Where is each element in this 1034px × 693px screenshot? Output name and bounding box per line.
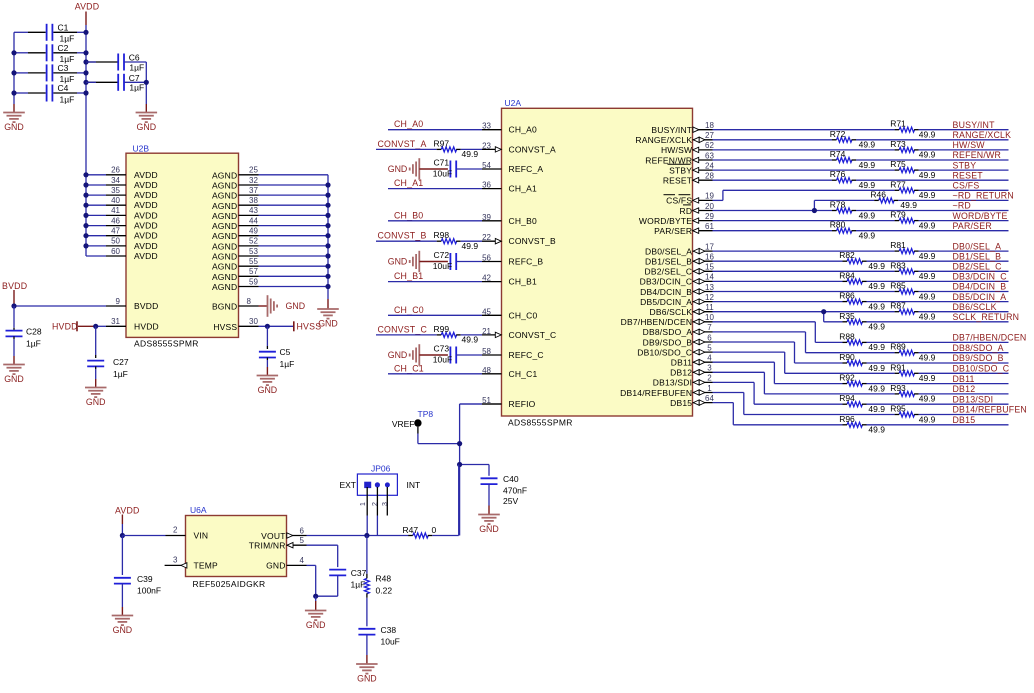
svg-text:13: 13	[705, 283, 714, 292]
ground GND (C40)	[478, 506, 500, 535]
svg-text:49.9: 49.9	[919, 353, 936, 363]
svg-text:DB5/DCIN_A: DB5/DCIN_A	[953, 292, 1007, 302]
svg-text:C37: C37	[351, 568, 367, 578]
pin 3 DB12 (U2A)	[670, 364, 712, 378]
resistor R86 49.9	[839, 291, 885, 312]
junction dots AVDD rail (cap bank)	[83, 30, 88, 96]
pin 19 CS/FS (U2A)	[666, 192, 714, 206]
svg-text:CH_A1: CH_A1	[394, 178, 423, 188]
svg-text:36: 36	[482, 181, 491, 190]
resistor R91 49.9	[890, 362, 935, 383]
pin 6 VOUT (U6A)	[261, 527, 306, 541]
resistor R72 49.9	[830, 129, 876, 150]
svg-text:49.9: 49.9	[868, 281, 885, 291]
node PAR/SER net label	[953, 221, 992, 231]
svg-text:43: 43	[249, 206, 258, 215]
svg-text:AGND: AGND	[212, 241, 237, 251]
resistor R96 49.9	[839, 414, 885, 435]
svg-text:AVDD: AVDD	[115, 506, 140, 516]
pin 55 AGND (U2B)	[212, 257, 328, 272]
resistor R35 49.9	[839, 311, 885, 332]
resistor R48 0.22	[364, 536, 392, 627]
pin 20 RD (U2A)	[680, 202, 715, 216]
pin 38 AGND (U2B)	[212, 196, 328, 211]
svg-text:DB9/SDO_B: DB9/SDO_B	[953, 353, 1004, 363]
svg-text:U2A: U2A	[505, 98, 522, 108]
svg-text:49.9: 49.9	[868, 363, 885, 373]
svg-text:DB5/DCIN_A: DB5/DCIN_A	[640, 297, 692, 307]
svg-text:WORD/BYTE: WORD/BYTE	[953, 211, 1008, 221]
svg-text:HVSS: HVSS	[297, 322, 322, 332]
svg-text:HVSS: HVSS	[213, 322, 237, 332]
node CH_B0 net label + wire	[388, 210, 482, 221]
svg-text:49.9: 49.9	[868, 261, 885, 271]
capacitor C5 1uF	[259, 326, 294, 369]
svg-text:0.22: 0.22	[376, 585, 393, 595]
svg-text:PAR/SER: PAR/SER	[654, 226, 692, 236]
svg-text:42: 42	[482, 274, 491, 283]
wire STBY row	[713, 169, 1009, 171]
svg-text:BUSY/INT: BUSY/INT	[953, 120, 996, 130]
capacitor C6 1uF	[86, 53, 146, 73]
svg-text:27: 27	[705, 131, 714, 140]
ground GND (left of C72)	[388, 251, 420, 272]
svg-text:45: 45	[482, 307, 491, 316]
pin 48 CH_C1 (U2A)	[482, 366, 537, 379]
resistor R74 49.9	[830, 149, 876, 170]
pin 15 DB2/SEL_C (U2A)	[645, 263, 715, 277]
overline RD pin name	[683, 204, 691, 206]
svg-text:30: 30	[249, 317, 258, 326]
pin 2 (JP06)	[372, 487, 379, 536]
resistor R98 49.9	[434, 230, 483, 251]
svg-text:DB15: DB15	[670, 398, 692, 408]
pin 10 DB7/HBEN/DCEN (U2A)	[621, 313, 715, 327]
svg-text:AVDD: AVDD	[134, 210, 158, 220]
pin 26 AVDD (U2B)	[86, 166, 158, 180]
pin 8 BGND (U2B)	[212, 297, 259, 312]
svg-text:CH_C1: CH_C1	[394, 363, 424, 373]
svg-text:5: 5	[300, 536, 305, 545]
svg-text:R93: R93	[890, 383, 906, 393]
svg-text:DB2/SEL_C: DB2/SEL_C	[953, 262, 1003, 272]
capacitor C27 1uF	[87, 326, 129, 379]
svg-text:R86: R86	[839, 291, 855, 301]
svg-text:14: 14	[705, 273, 714, 282]
svg-text:DB1/SEL_B: DB1/SEL_B	[645, 257, 692, 267]
node DB13/SDI net label	[953, 394, 994, 404]
resistor R71 49.9	[890, 119, 935, 140]
svg-text:6: 6	[300, 527, 305, 536]
svg-text:1µF: 1µF	[60, 94, 75, 104]
svg-text:AVDD: AVDD	[134, 241, 158, 251]
svg-text:REFEN/WR: REFEN/WR	[953, 150, 1002, 160]
wire BUSY/INT row	[713, 129, 1009, 131]
svg-text:HW/SW: HW/SW	[661, 145, 692, 155]
svg-text:DB0/SEL_A: DB0/SEL_A	[953, 241, 1002, 251]
node DB8/SDO_A net label	[953, 343, 1004, 353]
wire DB1/SEL_B row	[713, 260, 1009, 262]
pin 41 AVDD (U2B)	[86, 206, 158, 220]
svg-text:U6A: U6A	[190, 505, 207, 515]
svg-text:11: 11	[705, 303, 714, 312]
svg-text:10: 10	[705, 313, 714, 322]
svg-text:HVDD: HVDD	[134, 321, 159, 331]
svg-text:28: 28	[705, 172, 714, 181]
svg-text:RESET: RESET	[663, 176, 692, 186]
svg-text:10uF: 10uF	[433, 261, 452, 271]
junction dots AGND bus	[325, 182, 330, 289]
pin 1 DB14/REFBUFEN (U2A)	[620, 384, 712, 398]
capacitor C73 10uF	[419, 344, 482, 365]
resistor R73 49.9	[890, 139, 935, 160]
svg-text:C6: C6	[129, 53, 140, 63]
pin 39 CH_B0 (U2A)	[482, 213, 537, 226]
svg-text:49.9: 49.9	[462, 149, 479, 159]
resistor R88 49.9	[839, 331, 885, 352]
ground GND (C39)	[112, 607, 134, 635]
svg-text:R72: R72	[830, 129, 846, 139]
pin 37 AGND (U2B)	[212, 186, 328, 201]
svg-text:49.9: 49.9	[462, 335, 479, 345]
pin 23 CONVST_A (U2A)	[482, 141, 556, 154]
node SCLK_RETURN net label	[953, 312, 1020, 322]
node DB11 net label	[953, 374, 975, 384]
svg-text:2: 2	[372, 502, 379, 506]
svg-text:R83: R83	[890, 260, 906, 270]
svg-text:R99: R99	[434, 324, 450, 334]
svg-text:R77: R77	[890, 179, 906, 189]
capacitor C28 1uF	[6, 306, 42, 356]
svg-text:49.9: 49.9	[919, 373, 936, 383]
svg-text:44: 44	[249, 216, 258, 225]
node RANGE/XCLK net label	[953, 130, 1012, 140]
svg-text:TEMP: TEMP	[194, 560, 219, 570]
svg-text:AGND: AGND	[212, 231, 237, 241]
pin 2 DB13/SDI (U2A)	[653, 374, 713, 388]
svg-text:RANGE/XCLK: RANGE/XCLK	[635, 135, 692, 145]
junction dot on ~RD row	[812, 208, 817, 213]
svg-text:R96: R96	[839, 414, 855, 424]
svg-text:21: 21	[482, 327, 491, 336]
pin 32 AGND (U2B)	[212, 176, 328, 191]
pin 6 DB9/SDO_B (U2A)	[643, 333, 713, 347]
wire REFEN/WR row	[713, 159, 1009, 161]
resistor R46 49.9	[870, 189, 917, 210]
pin 42 CH_B1 (U2A)	[482, 274, 537, 287]
svg-text:DB12: DB12	[670, 368, 692, 378]
resistor R95 49.9	[890, 404, 935, 425]
wire AVDD vertical rail	[85, 25, 87, 256]
node DB2/SEL_C net label	[953, 262, 1003, 272]
pin 63 REFEN/WR (U2A)	[645, 151, 714, 165]
connector JP06	[339, 464, 420, 496]
ground GND (U6A pin4)	[305, 596, 327, 630]
svg-text:49.9: 49.9	[868, 342, 885, 352]
svg-text:DB10/SDO_C: DB10/SDO_C	[637, 347, 692, 357]
overline STBY pin name	[668, 163, 691, 165]
svg-text:C27: C27	[113, 357, 129, 367]
node DB15 net label	[953, 415, 976, 425]
svg-text:R90: R90	[839, 352, 855, 362]
pin 3 TEMP (U6A)	[165, 556, 218, 571]
wire RD_RETURN row	[814, 199, 1008, 201]
svg-text:26: 26	[111, 166, 120, 175]
svg-text:DB7/HBEN/DCEN: DB7/HBEN/DCEN	[953, 333, 1027, 343]
svg-text:R82: R82	[839, 250, 855, 260]
wire DB10/SDO_C row	[785, 372, 1009, 374]
pin 44 AGND (U2B)	[212, 216, 328, 231]
pin 17 DB0/SEL_A (U2A)	[645, 242, 714, 256]
svg-text:R71: R71	[890, 119, 906, 129]
svg-text:CS/FS: CS/FS	[953, 181, 980, 191]
svg-text:R47: R47	[403, 525, 419, 535]
svg-text:R76: R76	[830, 169, 846, 179]
svg-text:49.9: 49.9	[919, 394, 936, 404]
svg-text:DB10/SDO_C: DB10/SDO_C	[953, 364, 1010, 374]
svg-text:AGND: AGND	[212, 170, 237, 180]
resistor R99 49.9	[434, 324, 483, 345]
svg-text:REF5025AIDGKR: REF5025AIDGKR	[193, 579, 266, 589]
svg-text:ADS8555SPMR: ADS8555SPMR	[508, 418, 573, 428]
pin 12 DB5/DCIN_A (U2A)	[640, 293, 714, 307]
pin 11 DB6/SCLK (U2A)	[649, 303, 714, 317]
pin 30 HVSS (U2B)	[213, 317, 293, 332]
svg-text:GND: GND	[479, 524, 499, 534]
wire PAR/SER row	[713, 230, 1009, 232]
svg-text:GND: GND	[137, 122, 157, 132]
junction dots AVDD bus at U2B	[83, 172, 88, 248]
node DB3/DCIN_C net label	[953, 272, 1008, 282]
pin 61 PAR/SER (U2A)	[654, 222, 714, 236]
resistor R78 49.9	[830, 200, 876, 221]
svg-text:AVDD: AVDD	[75, 2, 100, 12]
pin 4 DB11 (U2A)	[671, 354, 713, 368]
svg-text:C72: C72	[434, 250, 450, 260]
node CH_C1 net label + wire	[388, 363, 482, 374]
svg-text:0: 0	[432, 525, 437, 535]
svg-text:2: 2	[173, 526, 178, 535]
node BUSY/INT net label	[953, 120, 996, 130]
wire RD row	[713, 210, 1009, 212]
svg-text:25: 25	[249, 166, 258, 175]
pin 29 WORD/BYTE (U2A)	[639, 212, 715, 226]
svg-text:46: 46	[111, 216, 120, 225]
svg-text:AVDD: AVDD	[134, 231, 158, 241]
svg-text:DB15: DB15	[953, 415, 976, 425]
node DB12 net label	[953, 384, 976, 394]
svg-text:CONVST_A: CONVST_A	[378, 139, 427, 149]
svg-text:DB11: DB11	[671, 358, 693, 368]
svg-text:GND: GND	[357, 674, 377, 684]
svg-text:49.9: 49.9	[868, 425, 885, 435]
svg-text:GND: GND	[388, 164, 408, 174]
pin 60 AVDD (U2B)	[86, 247, 158, 261]
wire pin 2 jog to DB13/SDI row	[713, 382, 755, 404]
svg-text:STBY: STBY	[953, 160, 977, 170]
svg-text:53: 53	[249, 247, 258, 256]
svg-text:R97: R97	[434, 138, 450, 148]
svg-text:17: 17	[705, 242, 714, 251]
svg-text:63: 63	[705, 151, 714, 160]
power port HVSS	[265, 321, 321, 331]
wire DB0/SEL_A row	[713, 250, 1009, 252]
wire WORD/BYTE row	[713, 220, 1009, 222]
node DB6/SCLK net label	[953, 302, 997, 312]
svg-text:4: 4	[707, 354, 712, 363]
svg-text:62: 62	[705, 141, 714, 150]
svg-text:REFC_A: REFC_A	[509, 164, 544, 174]
resistor R94 49.9	[839, 393, 885, 414]
svg-text:25V: 25V	[503, 496, 518, 506]
svg-text:DB4/DCIN_B: DB4/DCIN_B	[953, 282, 1007, 292]
svg-text:AGND: AGND	[212, 211, 237, 221]
svg-text:3: 3	[707, 364, 712, 373]
svg-text:CONVST_A: CONVST_A	[509, 144, 557, 154]
node DB1/SEL_B net label	[953, 251, 1002, 261]
resistor R83 49.9	[890, 260, 935, 281]
svg-text:C71: C71	[434, 158, 450, 168]
svg-text:35: 35	[111, 186, 120, 195]
svg-text:AGND: AGND	[212, 272, 237, 282]
svg-text:49.9: 49.9	[919, 271, 936, 281]
pin 31 HVDD (U2B)	[96, 317, 159, 331]
junction dots left rail	[11, 50, 16, 95]
svg-text:DB9/SDO_B: DB9/SDO_B	[643, 337, 693, 347]
pin 18 BUSY/INT (U2A)	[651, 121, 714, 135]
pin 40 AVDD (U2B)	[86, 196, 158, 210]
svg-text:100nF: 100nF	[137, 585, 161, 595]
node DB10/SDO_C net label	[953, 364, 1010, 374]
svg-text:29: 29	[705, 212, 714, 221]
svg-text:DB13/SDI: DB13/SDI	[653, 378, 692, 388]
pin 1 (JP06)	[360, 487, 367, 536]
svg-text:CONVST_B: CONVST_B	[378, 231, 427, 241]
svg-text:59: 59	[249, 277, 258, 286]
voltage reference U6A REF5025AIDGKR block body	[186, 505, 287, 589]
svg-text:R94: R94	[839, 393, 855, 403]
ground GND (left of C73)	[388, 344, 420, 366]
svg-text:R48: R48	[376, 574, 392, 584]
test point TP8 VREF	[392, 409, 462, 446]
ground GND (BGND pin)	[259, 295, 306, 317]
node DB14/REFBUFEN net label	[953, 405, 1027, 415]
capacitor C71 10uF	[419, 158, 482, 179]
svg-text:12: 12	[705, 293, 714, 302]
node DB7/HBEN/DCEN net label	[953, 333, 1027, 343]
svg-text:8: 8	[247, 297, 252, 306]
svg-text:49.9: 49.9	[919, 130, 936, 140]
pin 14 DB3/DCIN_C (U2A)	[640, 273, 715, 287]
svg-text:57: 57	[249, 267, 258, 276]
svg-text:R95: R95	[890, 404, 906, 414]
power port AVDD (U6A)	[115, 506, 140, 539]
svg-text:C1: C1	[58, 22, 69, 32]
ground GND (left of C71)	[388, 158, 420, 180]
svg-text:WORD/BYTE: WORD/BYTE	[639, 216, 692, 226]
svg-text:C5: C5	[280, 347, 291, 357]
resistor R77 49.9	[890, 179, 935, 200]
wire DB15 row	[733, 424, 1008, 426]
svg-text:34: 34	[111, 176, 120, 185]
wire SCLK_RETURN row	[824, 321, 1009, 323]
node WORD/BYTE net label	[953, 211, 1008, 221]
ground GND (C27)	[85, 379, 107, 407]
svg-text:AVDD: AVDD	[134, 251, 158, 261]
wire DB4/DCIN_B row	[713, 291, 1009, 293]
power port HVDD	[52, 321, 98, 331]
svg-text:R75: R75	[890, 159, 906, 169]
svg-text:AVDD: AVDD	[134, 180, 158, 190]
svg-text:49.9: 49.9	[868, 383, 885, 393]
svg-text:CH_C1: CH_C1	[509, 369, 538, 379]
wire junction jog down to SCLK_RETURN	[821, 309, 826, 322]
svg-text:DB3/DCIN_C: DB3/DCIN_C	[953, 272, 1008, 282]
svg-text:49: 49	[249, 227, 258, 236]
svg-text:41: 41	[111, 206, 120, 215]
svg-text:~RD: ~RD	[953, 201, 971, 211]
svg-text:48: 48	[482, 366, 491, 375]
wire DB5/DCIN_A row	[713, 301, 1009, 303]
svg-text:5: 5	[707, 343, 712, 352]
svg-text:TP8: TP8	[418, 409, 434, 419]
wire DB2/SEL_C row	[713, 270, 1009, 272]
pin 5 DB10/SDO_C (U2A)	[637, 343, 712, 357]
svg-text:49.9: 49.9	[919, 291, 936, 301]
resistor R92 49.9	[839, 373, 885, 394]
svg-text:R78: R78	[830, 200, 846, 210]
pin 49 AGND (U2B)	[212, 227, 328, 242]
pin 47 AVDD (U2B)	[86, 227, 158, 241]
resistor R97 49.9	[434, 138, 483, 159]
pin 33 CH_A0 (U2A)	[482, 122, 537, 135]
pin 58 REFC_C (U2A)	[482, 347, 544, 360]
wire to C40	[457, 462, 489, 467]
svg-text:10uF: 10uF	[433, 169, 452, 179]
wire pin 7 jog to DB8/SDO_A row	[713, 332, 806, 353]
wire pin19 jog up to CS/FS	[713, 190, 723, 200]
svg-text:2: 2	[707, 374, 712, 383]
svg-text:DB13/SDI: DB13/SDI	[953, 394, 994, 404]
svg-text:REFIO: REFIO	[509, 399, 536, 409]
svg-text:61: 61	[705, 222, 714, 231]
svg-text:BVDD: BVDD	[2, 281, 27, 291]
svg-text:U2B: U2B	[133, 144, 150, 154]
svg-text:CS/FS: CS/FS	[666, 196, 692, 206]
svg-text:31: 31	[111, 317, 120, 326]
wire DB6/SCLK row	[713, 311, 1009, 313]
resistor R81 49.9	[890, 240, 935, 261]
svg-text:HVDD: HVDD	[52, 322, 78, 332]
pin 52 AGND (U2B)	[212, 237, 328, 252]
power port BVDD	[2, 281, 27, 309]
ground GND (cap bank left)	[3, 104, 25, 132]
svg-text:C3: C3	[58, 63, 69, 73]
svg-text:CONVST_C: CONVST_C	[378, 324, 428, 334]
svg-text:49.9: 49.9	[919, 170, 936, 180]
svg-text:1: 1	[707, 384, 712, 393]
svg-text:RANGE/XCLK: RANGE/XCLK	[953, 130, 1012, 140]
svg-text:BVDD: BVDD	[134, 301, 158, 311]
svg-text:DB0/SEL_A: DB0/SEL_A	[645, 246, 692, 256]
svg-text:49.9: 49.9	[868, 404, 885, 414]
svg-text:AGND: AGND	[212, 181, 237, 191]
ground GND (C6/C7)	[136, 104, 158, 132]
pin 2 VIN (U6A)	[122, 526, 208, 541]
capacitor C2 1uF	[14, 43, 86, 64]
pin 51 REFIO (U2A)	[460, 396, 536, 409]
svg-text:DB14/REFBUFEN: DB14/REFBUFEN	[620, 388, 692, 398]
